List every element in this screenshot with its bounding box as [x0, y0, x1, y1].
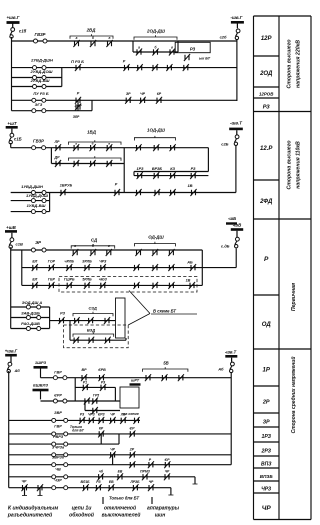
svg-text:выключателей: выключателей — [102, 511, 141, 518]
svg-text:в: в — [108, 244, 110, 248]
svg-text:ЗР: ЗР — [126, 92, 131, 96]
wire: r444 up link — [118, 434, 120, 444]
wire: link r434-r444 — [100, 434, 102, 444]
svg-text:1УВД-ДОШ: 1УВД-ДОШ — [26, 193, 48, 198]
wire: S4 row ГВР — [9, 433, 232, 435]
svg-text:Сторона средних напряжений: Сторона средних напряжений — [290, 357, 297, 434]
contact 1ВД lower a — [73, 160, 79, 167]
svg-text:Сторона высшего: Сторона высшего — [287, 39, 293, 88]
disconnect link с1б — [12, 23, 14, 28]
svg-text:2ВД: 2ВД — [86, 28, 97, 33]
svg-text:ЕВ: ЕВ — [109, 480, 114, 484]
wire: S4 row ЗЧРЗа — [9, 454, 232, 456]
wire: last row end — [170, 488, 172, 495]
contact 5В в — [178, 374, 184, 381]
svg-text:ЛБ: ЛБ — [120, 413, 126, 417]
svg-text:Аб: Аб — [14, 368, 21, 373]
svg-text:ЧР: ЧР — [22, 480, 28, 484]
svg-text:ПУ РЗ Б: ПУ РЗ Б — [33, 91, 49, 96]
svg-text:а: а — [76, 36, 78, 40]
contact ЧР row2 — [166, 64, 172, 71]
wire: S3 row 317 — [11, 317, 50, 319]
svg-text:РВРЗ: РВРЗ — [53, 435, 64, 439]
svg-text:ВРЗБ: ВРЗБ — [152, 167, 163, 171]
svg-text:Р1: Р1 — [83, 381, 87, 385]
svg-text:П РЗ Б: П РЗ Б — [71, 59, 84, 64]
svg-text:шин: шин — [155, 512, 166, 518]
contact S3 row2 x155 — [152, 282, 158, 289]
contact 5В a — [145, 374, 151, 381]
svg-text:ЧР: ЧР — [110, 413, 115, 417]
contact ВЗД a — [73, 337, 79, 344]
svg-text:с1Б: с1Б — [14, 137, 22, 142]
contact S3 row2 x136.5 — [133, 282, 139, 289]
contact СЗД в — [104, 317, 110, 324]
wire: S3 row 309 — [11, 306, 50, 308]
svg-text:Только для БТ: Только для БТ — [109, 496, 140, 501]
svg-text:ЗРЛБ: ЗРЛБ — [82, 260, 92, 264]
svg-text:ОД-ДШ: ОД-ДШ — [148, 235, 164, 240]
disconnect link с2В — [236, 231, 238, 238]
svg-text:-шв.Т: -шв.Т — [230, 121, 242, 126]
contact 1ВД lower б — [90, 160, 96, 167]
contact ЗбР row6 — [75, 104, 81, 111]
wire: 2ОД-ДШ branch — [132, 41, 134, 52]
svg-text:ЕЛ: ЕЛ — [32, 277, 37, 281]
svg-text:ОД: ОД — [262, 322, 272, 328]
svg-text:12.Р: 12.Р — [260, 146, 273, 152]
wire: S3 left bus — [10, 250, 12, 329]
svg-text:1В: 1В — [186, 279, 191, 283]
table outer border — [254, 16, 312, 520]
contact ЄР row2 — [183, 64, 189, 71]
svg-text:ВЛ1Б: ВЛ1Б — [80, 480, 90, 484]
wire: S4 row РВРЗ — [9, 443, 119, 445]
svg-text:ВЗД: ВЗД — [87, 328, 95, 333]
svg-text:ЄРР: ЄРР — [54, 394, 62, 398]
svg-text:-шВ: -шВ — [233, 223, 242, 228]
svg-text:ЧРЗ: ЧРЗ — [99, 260, 107, 264]
svg-text:Р: Р — [264, 256, 269, 263]
svg-text:КР: КР — [99, 427, 104, 431]
svg-text:5В: 5В — [163, 361, 168, 366]
svg-text:+шВ: +шВ — [6, 225, 16, 230]
svg-text:-шБ: -шБ — [228, 216, 236, 221]
wire: S3 row 340 — [69, 321, 71, 341]
svg-text:ЧР: ЧР — [110, 448, 115, 452]
svg-text:в: в — [171, 46, 173, 50]
svg-text:ДР: ДР — [54, 156, 61, 160]
contact ВЗД б — [88, 337, 94, 344]
contact 1ОД-ДШ в — [170, 144, 176, 151]
svg-text:В схеме БТ: В схеме БТ — [153, 309, 176, 314]
svg-text:шРТ: шРТ — [131, 379, 140, 383]
svg-text:АБ: АБ — [186, 261, 193, 265]
svg-text:ЄР: ЄР — [130, 427, 136, 431]
contact rowY 1 — [135, 189, 141, 196]
svg-text:разъединителей: разъединителей — [7, 511, 53, 518]
svg-text:напряжения 110кВ: напряжения 110кВ — [296, 141, 302, 189]
svg-text:ЄРВ: ЄРВ — [98, 368, 106, 372]
svg-text:ЛР: ЛР — [54, 140, 60, 144]
svg-text:12РОВ: 12РОВ — [259, 92, 274, 97]
wire: mesh vertical x115 — [114, 387, 116, 401]
contact row2 x155 — [152, 64, 158, 71]
svg-text:1УВД-ДШН: 1УВД-ДШН — [21, 184, 43, 189]
svg-text:аппаратуры: аппаратуры — [147, 505, 180, 511]
svg-text:ЗР: ЗР — [263, 420, 270, 426]
svg-text:Р: Р — [115, 183, 118, 187]
table row dividers (full width) — [254, 112, 312, 350]
svg-text:ЗВР: ЗВР — [54, 411, 62, 415]
svg-text:РАО-ДШВ: РАО-ДШВ — [21, 321, 40, 326]
svg-text:1Р: 1Р — [263, 368, 271, 374]
svg-text:Р: Р — [123, 60, 126, 64]
wire: S3 row 320 — [50, 320, 116, 322]
svg-text:отключеной: отключеной — [104, 504, 136, 511]
svg-text:-шв.Т: -шв.Т — [225, 349, 237, 354]
contact S3 row2 x171.4 — [168, 282, 174, 289]
svg-text:+шТ: +шТ — [7, 121, 16, 126]
svg-text:2УВД-ДОШ: 2УВД-ДОШ — [30, 69, 53, 74]
svg-text:ЄР: ЄР — [165, 458, 171, 462]
wire: mesh row 387 — [75, 386, 115, 388]
svg-text:ык БТ: ык БТ — [199, 57, 211, 61]
svg-text:ЧР: ЧР — [149, 480, 154, 484]
wire: S2 mid vertical — [123, 164, 125, 193]
svg-text:ГР5: ГР5 — [93, 394, 99, 398]
svg-text:РЗ: РЗ — [60, 312, 65, 316]
svg-text:с1В: с1В — [16, 242, 23, 247]
svg-text:Аб: Аб — [217, 367, 224, 372]
svg-text:а: а — [74, 244, 76, 248]
svg-text:б: б — [92, 142, 94, 146]
svg-text:1ВД: 1ВД — [87, 130, 97, 135]
svg-text:чРЛБ: чРЛБ — [64, 260, 74, 264]
relay box S4 — [120, 387, 139, 408]
disconnect link Аб — [10, 357, 12, 363]
wire: S3 left vertical — [21, 250, 23, 285]
svg-text:2УВД-ВШ: 2УВД-ВШ — [30, 78, 50, 83]
contact ВЗД в — [105, 337, 111, 344]
contact ОД-ДШ б — [152, 249, 158, 256]
contact r465 1 — [129, 461, 135, 468]
relay coil box S3 — [116, 298, 126, 338]
svg-text:2УВД-ДШН: 2УВД-ДШН — [30, 58, 53, 63]
wire: S4 row ЗВРЗб — [9, 464, 232, 466]
wire: S1 top rail — [12, 40, 237, 42]
svg-text:1ШРЗ: 1ШРЗ — [35, 360, 47, 365]
contact S3 row1 x155 — [152, 264, 158, 271]
group label 1ВД lower bracket — [69, 156, 122, 161]
svg-text:ЄРЗ: ЄРЗ — [98, 413, 106, 417]
svg-text:2ОД: 2ОД — [259, 71, 273, 77]
wire: S1 right bus — [236, 41, 238, 101]
svg-text:ЗЧРЗа: ЗЧРЗа — [52, 446, 64, 450]
wire: S2 row X — [134, 175, 208, 177]
svg-text:РЗ: РЗ — [263, 105, 270, 111]
relay РЗ contact S1 — [184, 54, 190, 61]
svg-text:ВР: ВР — [82, 368, 88, 372]
wire: S3 right loop — [201, 250, 203, 285]
svg-text:ЭГЗ: ЭГЗ — [35, 102, 43, 107]
svg-text:+шв.Г: +шв.Г — [6, 15, 19, 20]
wire: S2 right loop — [207, 148, 209, 172]
svg-text:чЮЗ: чЮЗ — [99, 277, 108, 281]
svg-text:СЗД: СЗД — [88, 306, 96, 311]
svg-text:ЧР: ЧР — [140, 92, 146, 96]
wire: S4 row 378 — [41, 377, 232, 379]
svg-text:2РЗ: 2РЗ — [260, 449, 271, 455]
contact СЗД a — [74, 317, 80, 324]
svg-text:ЧРЗ: ЧРЗ — [88, 413, 96, 417]
wire: S2 row Y — [11, 192, 203, 194]
wire: S2 row 210 — [11, 211, 50, 213]
svg-text:с.дБ: с.дБ — [221, 244, 230, 249]
svg-text:ЧР: ЧР — [165, 470, 170, 474]
disconnect link Аб right — [231, 358, 233, 362]
wire: right feeder drop S1 — [236, 39, 238, 41]
contact ОД-ДШ a — [135, 249, 141, 256]
svg-text:ЧВ: ЧВ — [55, 468, 61, 472]
svg-text:Первичная: Первичная — [291, 283, 297, 311]
svg-text:2Р: 2Р — [262, 400, 270, 406]
svg-text:ГВЗР: ГВЗР — [35, 32, 46, 37]
svg-text:ПРМЗ: ПРМЗ — [140, 470, 151, 474]
wire: caption pointer 2 — [151, 497, 153, 504]
wire: caption pointer 1 — [102, 497, 104, 504]
contact 1ВД lower в — [106, 160, 112, 167]
svg-text:ЛРЗБ: ЛРЗБ — [129, 480, 140, 484]
svg-text:в: в — [109, 36, 111, 40]
svg-text:ЭР: ЭР — [35, 240, 41, 245]
svg-text:с2б: с2б — [220, 35, 227, 40]
wire: S3 top rail — [11, 249, 203, 251]
disconnect link с1Б — [11, 129, 13, 134]
svg-text:6Р: 6Р — [157, 92, 162, 96]
wire: S1 left bus — [11, 41, 13, 111]
contact ЧР bottom2 — [37, 484, 43, 491]
svg-text:Сторона высшего: Сторона высшего — [287, 140, 293, 189]
wire: S2 top rail — [11, 147, 209, 149]
svg-text:+шв.Г: +шв.Г — [5, 348, 18, 353]
wire: 1ВД lower branch — [50, 148, 52, 164]
svg-text:в: в — [108, 142, 110, 146]
wire: r477 end drop — [194, 477, 196, 484]
wire: S1 row6 — [12, 110, 93, 112]
svg-text:ЕВ: ЕВ — [118, 470, 123, 474]
svg-text:СД: СД — [91, 238, 98, 243]
svg-text:ГВР: ГВР — [54, 371, 62, 375]
svg-text:К индивидуальным: К индивидуальным — [8, 505, 59, 511]
svg-text:ЗбР: ЗбР — [73, 115, 80, 119]
svg-text:1РЗ: 1РЗ — [137, 167, 144, 171]
svg-text:ГВЗР: ГВЗР — [33, 139, 44, 144]
wire: S1 row2 — [12, 67, 237, 69]
dashed region lower (В схеме БТ) — [64, 325, 129, 348]
disconnect link с2Б S2 — [236, 130, 238, 135]
svg-text:ЭОД-ДШ А: ЭОД-ДШ А — [22, 300, 43, 305]
svg-text:ГЕР: ГЕР — [48, 277, 56, 281]
wire: S4 row ЧВ — [9, 476, 195, 478]
contact ОД-ДШ в — [168, 249, 174, 256]
wire: right feeder drop S2 — [235, 145, 237, 193]
contact 1ОД-ДШ a — [135, 144, 141, 151]
svg-text:5РЛБ: 5РЛБ — [82, 277, 92, 281]
wire: S4 right bus — [230, 372, 232, 465]
contact rowY 3 — [170, 189, 176, 196]
svg-text:с2Б: с2Б — [221, 142, 228, 147]
svg-text:2Р: 2Р — [129, 448, 135, 452]
svg-text:обходной: обходной — [69, 511, 95, 518]
wire: S4 left bus — [8, 371, 10, 488]
svg-text:1УВД-ВШ: 1УВД-ВШ — [27, 203, 46, 208]
contact r420 x136 — [133, 417, 139, 424]
svg-text:КЗ: КЗ — [170, 167, 175, 171]
svg-text:2ФД: 2ФД — [259, 199, 273, 205]
svg-text:для БТ: для БТ — [72, 429, 85, 433]
wire: S3 row 335 — [11, 328, 50, 330]
wire: S3 row2 — [22, 284, 203, 286]
svg-text:12Р: 12Р — [261, 36, 273, 42]
svg-text:ЗВРЗб: ЗВРЗб — [52, 456, 65, 460]
wire: S1 row3 — [12, 77, 62, 79]
contact СЗД б — [88, 317, 94, 324]
wire: mesh row 410 — [85, 410, 120, 412]
wire: S4 row ЧЗР — [9, 487, 171, 489]
svg-text:ЕШВЛЗ: ЕШВЛЗ — [33, 383, 48, 388]
wire: S4 row ЗВР — [9, 419, 140, 421]
svg-text:ГВР: ГВР — [54, 425, 62, 429]
wire: left feeder drop S1 — [11, 37, 13, 41]
svg-text:ЧЗР: ЧЗР — [54, 479, 62, 483]
svg-text:-шв.Г: -шв.Г — [231, 15, 243, 20]
svg-text:ГШРБ: ГШРБ — [64, 277, 75, 281]
disconnect link с1В — [11, 233, 13, 238]
contact rowY 2 — [154, 189, 160, 196]
svg-text:1ОД-ДШ: 1ОД-ДШ — [147, 128, 166, 133]
contact S3 row1 x171.4 — [168, 264, 174, 271]
contact 5В б — [161, 374, 167, 381]
svg-text:1РЗ: 1РЗ — [261, 434, 271, 440]
wire: mesh vertical x75 — [74, 378, 76, 401]
wire: S1 row5 — [12, 99, 237, 101]
svg-text:ЕЛ: ЕЛ — [32, 260, 37, 264]
contact mesh 87 — [84, 398, 90, 405]
svg-text:2ОД-ДШ: 2ОД-ДШ — [146, 29, 166, 34]
wire: S1 row4 — [12, 86, 62, 88]
wire: S3 row1 — [22, 267, 236, 269]
svg-text:ЗАВ-ДШБ: ЗАВ-ДШБ — [21, 310, 40, 315]
contact 1ОД-ДШ б — [153, 144, 159, 151]
svg-text:ВПЗБ: ВПЗБ — [260, 474, 274, 479]
svg-text:ВПЗ: ВПЗ — [261, 462, 272, 468]
svg-text:а: а — [138, 46, 140, 50]
svg-text:напряжения 220кВ: напряжения 220кВ — [296, 40, 302, 88]
svg-text:цепи 1и: цепи 1и — [72, 505, 93, 511]
dashed region upper (В схеме БТ) — [59, 277, 197, 293]
svg-text:1В: 1В — [187, 183, 192, 188]
svg-text:ЧР: ЧР — [262, 505, 272, 512]
wire: left feeder drop S2 — [10, 143, 12, 148]
table row dividers (left column) — [254, 56, 280, 493]
wire: S4 row 401 — [41, 400, 121, 402]
relay РЗ box S1 — [175, 42, 210, 52]
wire: right feeder drop S3 — [235, 249, 237, 268]
contact mesh b1 — [92, 407, 98, 414]
svg-text:1ВРУБ: 1ВРУБ — [60, 184, 73, 188]
disconnect link с2б — [236, 24, 238, 29]
wire: S2 row 201 — [11, 200, 50, 202]
svg-text:РЗ: РЗ — [191, 167, 196, 171]
svg-text:ЧРЗ: ЧРЗ — [261, 487, 272, 493]
wire: left feeder drop S3 — [10, 247, 12, 250]
svg-text:ГОР: ГОР — [48, 260, 56, 264]
contact S3 row1 x136.5 — [133, 264, 139, 271]
contact 2ОР row2 — [137, 64, 143, 71]
svg-text:с1б: с1б — [19, 29, 27, 34]
wire: link r455-r465 — [112, 455, 114, 465]
svg-text:РЗ: РЗ — [190, 46, 196, 51]
svg-text:Р: Р — [77, 92, 80, 96]
